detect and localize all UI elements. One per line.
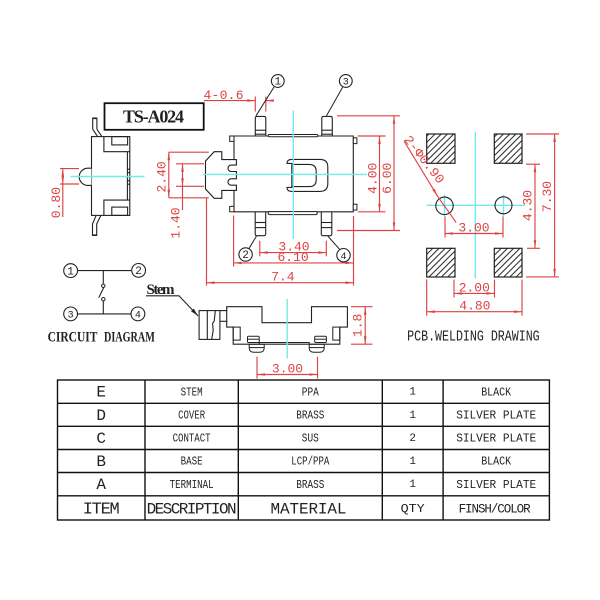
svg-text:2: 2 <box>135 266 142 278</box>
svg-text:D: D <box>96 407 106 425</box>
table row B <box>96 453 511 471</box>
dimension 4.80 <box>427 280 522 316</box>
top view corner ear tabs <box>230 136 357 212</box>
svg-text:2: 2 <box>242 250 249 262</box>
svg-text:SILVER PLATE: SILVER PLATE <box>456 479 536 492</box>
circuit wire top <box>78 270 131 272</box>
top view terminal pin 2 <box>255 212 266 236</box>
dimension 1.40 <box>176 164 204 210</box>
svg-text:BLACK: BLACK <box>481 456 511 469</box>
front view base corner posts <box>233 327 240 340</box>
dimension 7.4 <box>207 198 354 286</box>
svg-text:3: 3 <box>343 78 349 89</box>
pcb hole crosshair left <box>444 195 446 217</box>
circuit wire lower stub <box>102 301 104 314</box>
front view body <box>227 307 348 345</box>
svg-text:3.00: 3.00 <box>458 221 489 236</box>
circuit diagram terminal 1 <box>64 264 78 279</box>
svg-text:1: 1 <box>409 456 416 468</box>
dimension 3.40 <box>260 241 327 257</box>
pin number 2 <box>239 236 257 262</box>
dimension 2.00 <box>454 280 495 298</box>
pin number 3 <box>327 75 353 116</box>
svg-text:1.8: 1.8 <box>351 314 366 337</box>
svg-text:MATERIAL: MATERIAL <box>271 500 347 518</box>
table row E <box>96 384 511 402</box>
svg-text:FINSH/COLOR: FINSH/COLOR <box>459 502 531 516</box>
dimension 2.40 <box>169 152 209 198</box>
pcb pad bottom-left <box>427 248 455 277</box>
circuit contact upper <box>102 284 105 287</box>
dimension 0.80 <box>60 169 79 217</box>
pcb pad bottom-right <box>494 248 522 277</box>
svg-text:SUS: SUS <box>302 433 319 446</box>
top view terminal pin 3 <box>322 116 333 136</box>
side view body <box>92 137 130 216</box>
top view stem <box>206 152 235 199</box>
top view center D-shaped dimple <box>287 159 328 191</box>
switch lever <box>99 288 104 298</box>
dimension 4.30 <box>526 164 540 248</box>
circuit diagram terminal 4 <box>131 307 145 322</box>
pin number 1 <box>256 75 284 116</box>
svg-text:QTY: QTY <box>401 502 425 516</box>
svg-text:A: A <box>96 476 106 494</box>
svg-text:SILVER PLATE: SILVER PLATE <box>456 410 536 423</box>
svg-text:4.30: 4.30 <box>521 190 536 221</box>
svg-text:1: 1 <box>409 479 416 491</box>
pcb hole crosshair right <box>503 195 505 217</box>
table header row <box>83 500 531 519</box>
top view cover flange bottom <box>268 212 317 215</box>
dimension 4-0.6 <box>204 97 274 112</box>
dimension 4.00 <box>358 136 386 212</box>
front view bottom center slab <box>259 343 309 345</box>
svg-text:LCP/PPA: LCP/PPA <box>291 456 329 469</box>
top view terminal pin 1 <box>255 116 265 136</box>
side view top terminal <box>93 118 97 129</box>
svg-text:E: E <box>96 384 106 402</box>
label Stem with leader <box>146 282 198 316</box>
svg-text:3: 3 <box>68 311 74 322</box>
pcb hole right <box>495 197 512 214</box>
top view horizontal centerline <box>203 173 367 175</box>
circuit wire upper stub <box>102 271 104 284</box>
dimension 3.00 front <box>257 357 318 379</box>
circuit wire bottom <box>78 313 131 315</box>
svg-text:TERMINAL: TERMINAL <box>170 479 214 492</box>
svg-text:6.10: 6.10 <box>277 250 308 265</box>
svg-text:PPA: PPA <box>302 386 319 399</box>
svg-text:0.80: 0.80 <box>49 187 64 218</box>
circuit contact lower <box>102 298 105 301</box>
title box TS-A024 <box>105 103 204 130</box>
front view left foot <box>248 336 265 352</box>
svg-text:CONTACT: CONTACT <box>173 433 211 446</box>
svg-text:4.00: 4.00 <box>365 163 380 194</box>
svg-text:TS-A024: TS-A024 <box>123 107 184 127</box>
svg-text:3.00: 3.00 <box>272 361 303 376</box>
svg-text:7.30: 7.30 <box>540 181 555 212</box>
label 2-D0.90 with leader <box>404 141 438 196</box>
dimension 6.10 <box>234 216 354 286</box>
svg-text:2.00: 2.00 <box>459 280 490 295</box>
svg-text:ITEM: ITEM <box>83 500 120 519</box>
dimension 6.00 <box>337 116 400 231</box>
svg-text:CIRCUIT: CIRCUIT <box>48 329 98 345</box>
svg-text:BRASS: BRASS <box>296 410 324 423</box>
svg-text:1: 1 <box>274 77 281 89</box>
svg-text:7.4: 7.4 <box>271 270 295 285</box>
svg-text:1: 1 <box>67 266 74 278</box>
side view centerline <box>71 176 145 178</box>
svg-text:DIAGRAM: DIAGRAM <box>104 329 155 345</box>
svg-text:BLACK: BLACK <box>481 386 511 399</box>
top view body <box>228 136 353 212</box>
svg-text:PCB.WELDING DRAWING: PCB.WELDING DRAWING <box>407 329 540 345</box>
svg-text:BASE: BASE <box>181 456 203 469</box>
top view terminal pin 4 <box>321 212 332 236</box>
svg-text:4-0.6: 4-0.6 <box>204 88 244 103</box>
pcb hole left <box>436 197 453 214</box>
front view right foot <box>309 336 326 352</box>
table grid <box>58 380 550 520</box>
side view stem button <box>79 168 91 185</box>
svg-text:SILVER PLATE: SILVER PLATE <box>456 433 536 446</box>
table row C <box>96 430 536 448</box>
svg-text:4: 4 <box>340 252 346 263</box>
svg-text:1: 1 <box>409 387 416 399</box>
side view bottom terminal <box>93 216 101 236</box>
circuit diagram terminal 3 <box>64 307 78 322</box>
top view cover flange top <box>268 135 318 137</box>
pcb pad top-right <box>494 134 522 163</box>
svg-text:BRASS: BRASS <box>296 479 324 492</box>
pcb centerline vertical <box>474 132 476 279</box>
svg-text:4.80: 4.80 <box>459 299 490 314</box>
dimension 3.00 pcb <box>445 217 503 238</box>
svg-text:B: B <box>96 453 106 471</box>
svg-text:1: 1 <box>409 410 416 422</box>
pcb centerline horizontal <box>427 204 525 206</box>
circuit diagram terminal 2 <box>132 264 146 279</box>
pcb pad top-left <box>427 134 455 163</box>
svg-text:STEM: STEM <box>181 386 203 399</box>
dimension 7.30 <box>526 134 559 277</box>
svg-text:6.00: 6.00 <box>380 163 395 194</box>
svg-text:2: 2 <box>409 433 416 445</box>
table row D <box>96 407 536 425</box>
top view vertical centerline <box>292 111 294 240</box>
pin number 4 <box>328 236 350 263</box>
table row A <box>96 476 536 494</box>
svg-text:DESCRIPTION: DESCRIPTION <box>147 500 237 518</box>
svg-text:1.40: 1.40 <box>169 207 184 238</box>
svg-text:COVER: COVER <box>178 410 205 423</box>
dimension 1.8 <box>351 307 373 345</box>
front view centerline <box>286 299 288 359</box>
front view stem <box>199 311 227 340</box>
svg-text:2.40: 2.40 <box>154 161 169 192</box>
svg-text:4: 4 <box>135 311 141 322</box>
svg-text:C: C <box>96 430 106 448</box>
